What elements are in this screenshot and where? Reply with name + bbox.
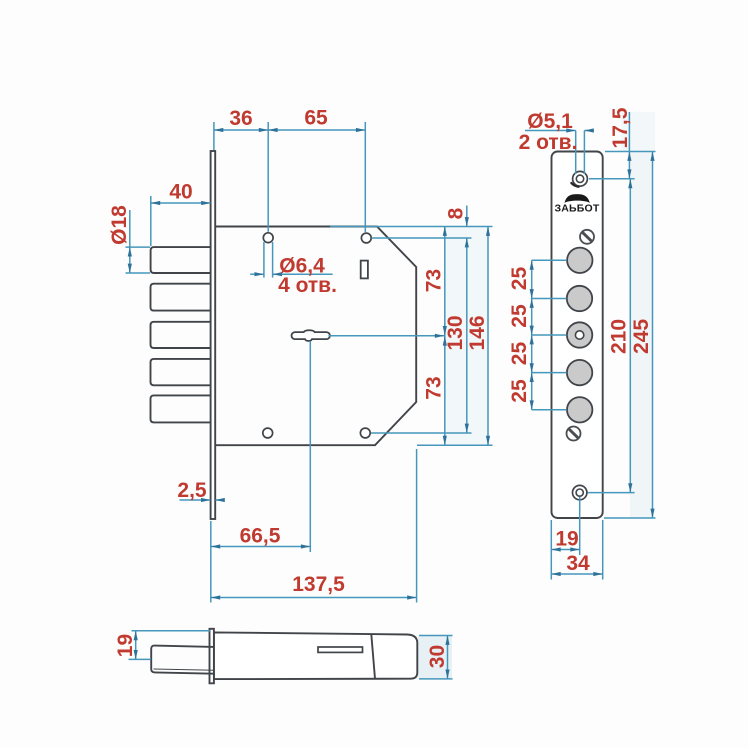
hole C bottom-left xyxy=(263,428,273,438)
leader d5.1 left xyxy=(525,130,576,132)
svg-text:130: 130 xyxy=(444,315,467,350)
main view lock body group xyxy=(151,151,417,519)
dimension lines side view xyxy=(129,631,453,679)
svg-text:17,5: 17,5 xyxy=(609,107,632,148)
ext 19 top xyxy=(132,630,211,632)
dimension lines faceplate view xyxy=(525,112,656,580)
svg-text:73: 73 xyxy=(423,376,446,399)
svg-text:66,5: 66,5 xyxy=(240,525,281,548)
tint wash faceplate right dims xyxy=(630,152,653,518)
faceplate front view group xyxy=(552,152,603,519)
keyhole cross-section xyxy=(292,330,330,341)
dimension lines main view xyxy=(126,122,493,603)
ext top edge right xyxy=(330,226,493,228)
dim 30 xyxy=(447,636,449,679)
svg-text:8: 8 xyxy=(445,207,468,219)
svg-text:137,5: 137,5 xyxy=(292,573,345,596)
tint wash right of main view dims xyxy=(445,227,488,445)
dim 73 upper + lower line xyxy=(444,227,446,446)
svg-text:65: 65 xyxy=(304,107,328,130)
dim 40 xyxy=(151,202,211,204)
svg-text:25: 25 xyxy=(508,304,531,328)
side divider line xyxy=(371,634,375,679)
screw top xyxy=(580,230,594,244)
ext plate top right xyxy=(605,151,656,153)
middle tick arrows at keyhole line xyxy=(444,322,446,335)
ext line d18 top xyxy=(126,246,151,248)
hole B top-right xyxy=(361,233,371,243)
screw bottom xyxy=(567,427,581,441)
ext 137.5 right xyxy=(416,449,418,603)
lock body outline xyxy=(215,227,416,446)
svg-text:4 отв.: 4 отв. xyxy=(278,274,337,297)
small shade mark below top hole xyxy=(571,182,580,187)
dim 65 xyxy=(268,129,365,131)
top screw hole inner xyxy=(576,175,583,182)
tint wash faceplate top right xyxy=(621,112,655,152)
red labels main view xyxy=(108,107,489,597)
dim 34 xyxy=(551,573,602,575)
side bolt shade line xyxy=(154,669,214,670)
leader d6.4 left arrow xyxy=(250,273,264,275)
dim d18 xyxy=(129,210,131,247)
svg-text:2 отв.: 2 отв. xyxy=(519,131,578,154)
ext bottom hole line right xyxy=(371,432,472,434)
dim 245 xyxy=(652,152,654,519)
svg-text:19: 19 xyxy=(114,634,137,657)
dim 210 xyxy=(629,179,631,493)
ext line holes col2 xyxy=(364,122,366,232)
ext line holes col1 xyxy=(267,122,269,232)
side bolt xyxy=(151,646,214,674)
bolt circle 2 xyxy=(567,286,592,311)
bolt 4 xyxy=(151,359,211,385)
top screw hole outer xyxy=(573,171,588,186)
dim 25 b xyxy=(531,299,533,336)
dim 137.5 xyxy=(211,597,417,599)
bolt 2 xyxy=(151,284,211,311)
faceplate plate xyxy=(552,152,603,519)
ext 30 top xyxy=(419,635,453,637)
ext top hole right xyxy=(589,178,635,180)
bolt 1 xyxy=(151,247,211,273)
bolt 3 xyxy=(151,322,211,348)
svg-text:73: 73 xyxy=(423,269,446,292)
ext line d18 bottom xyxy=(126,272,151,274)
svg-text:146: 146 xyxy=(466,315,489,350)
side faceplate bar xyxy=(210,629,214,684)
slot cutout xyxy=(361,261,368,279)
svg-text:19: 19 xyxy=(555,528,578,551)
ext bottom hole down xyxy=(579,497,581,555)
side slot xyxy=(318,647,363,652)
dim 25 d xyxy=(531,373,533,410)
ext bottom hole right xyxy=(588,492,635,494)
ext plate right bottom xyxy=(602,520,604,580)
side view group xyxy=(151,629,417,684)
ext plate bottom right xyxy=(604,517,656,519)
keyhole vertical ext xyxy=(309,341,311,552)
svg-text:34: 34 xyxy=(566,552,590,575)
bottom screw hole inner xyxy=(576,489,583,496)
bolt circle 5 xyxy=(567,397,592,422)
ext line 36 left xyxy=(213,122,215,150)
ext 19 bottom xyxy=(129,658,152,660)
bolt circle 1 xyxy=(567,248,592,273)
svg-text:Ø18: Ø18 xyxy=(108,205,131,245)
hole A top-left xyxy=(263,233,273,243)
bolt circle 4 xyxy=(567,360,592,385)
red labels faceplate view xyxy=(508,107,653,575)
ext 30 bottom xyxy=(419,678,453,680)
bolt circle 3 with pin xyxy=(567,322,592,347)
leader d5.1 right xyxy=(584,130,593,132)
dim 36 xyxy=(214,129,268,131)
bottom screw hole outer xyxy=(573,485,587,499)
svg-text:36: 36 xyxy=(229,107,252,130)
faceplate edge bar xyxy=(211,151,216,519)
dim 2.5 left part xyxy=(180,499,211,501)
svg-text:25: 25 xyxy=(508,379,531,403)
bolt 5 xyxy=(151,395,211,422)
svg-text:2,5: 2,5 xyxy=(177,479,207,502)
ext plate left bottom xyxy=(550,520,552,580)
ext 66.5 left (bar bottom) xyxy=(210,521,212,603)
red labels side view xyxy=(114,634,449,668)
dim 2.5 right part xyxy=(215,499,224,501)
svg-text:210: 210 xyxy=(608,319,631,354)
hole D bottom-right xyxy=(360,428,370,438)
dim 8 upper tail xyxy=(466,206,468,227)
logo arch xyxy=(565,194,590,203)
svg-text:30: 30 xyxy=(426,645,449,668)
dim 25 c xyxy=(531,335,533,373)
dim 130 xyxy=(466,238,468,433)
keyhole leader to right xyxy=(329,335,445,337)
ext hole line right xyxy=(372,237,472,239)
tint wash side view right xyxy=(418,636,452,679)
dim 25 a xyxy=(531,260,533,298)
tangent lines d5.1 xyxy=(575,131,577,175)
svg-text:ЗАЬБОТ: ЗАЬБОТ xyxy=(554,203,599,215)
svg-text:40: 40 xyxy=(169,181,192,204)
dim 19 side xyxy=(135,631,137,660)
svg-text:25: 25 xyxy=(508,342,531,366)
svg-text:25: 25 xyxy=(508,267,531,291)
tangent lines d6.4 xyxy=(263,242,265,278)
ext bottom edge right xyxy=(417,444,493,446)
ext line 40 left xyxy=(150,196,152,246)
side body xyxy=(214,632,417,679)
dim 66.5 xyxy=(211,546,310,548)
dim 146 xyxy=(487,227,489,446)
svg-text:Ø5,1: Ø5,1 xyxy=(527,110,573,133)
svg-text:245: 245 xyxy=(630,319,653,354)
leader d6.4 right part xyxy=(273,273,333,275)
dim 19 plate xyxy=(551,549,579,551)
ext circle centers left xyxy=(532,259,567,261)
dim 17.5 xyxy=(628,112,630,152)
